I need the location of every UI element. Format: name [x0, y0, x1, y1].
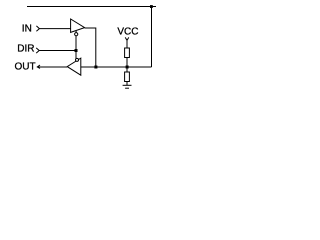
svg-text:VCC: VCC	[117, 27, 138, 38]
svg-text:DIR: DIR	[17, 44, 34, 55]
svg-text:OUT: OUT	[15, 62, 36, 73]
svg-text:IN: IN	[22, 24, 32, 35]
